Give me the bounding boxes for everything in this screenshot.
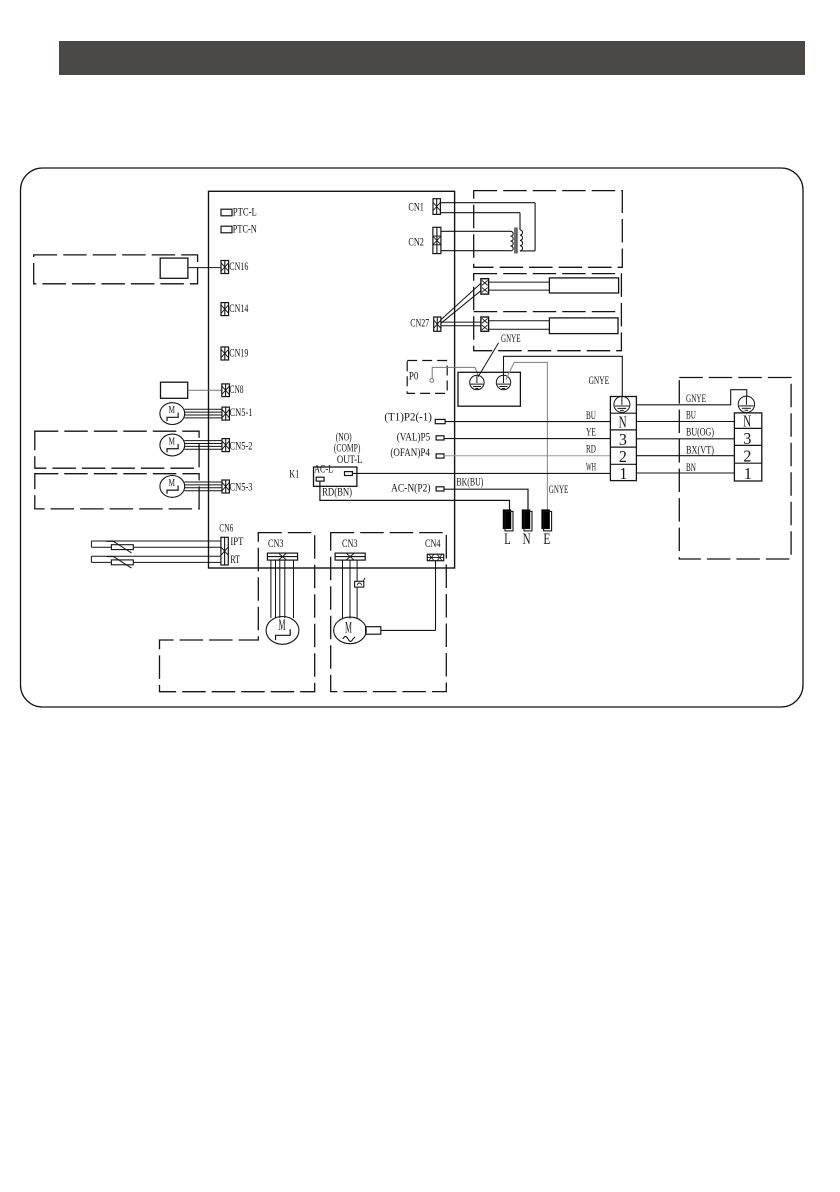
svg-text:IPT: IPT — [230, 534, 243, 548]
svg-text:RT: RT — [230, 552, 240, 566]
svg-text:K1: K1 — [289, 467, 299, 481]
svg-text:OUT-L: OUT-L — [337, 452, 363, 466]
svg-text:BK(BU): BK(BU) — [456, 474, 483, 488]
svg-text:(VAL)P5: (VAL)P5 — [397, 429, 431, 443]
svg-text:CN8: CN8 — [230, 382, 244, 396]
svg-text:M: M — [169, 477, 176, 489]
svg-text:M: M — [169, 404, 176, 416]
svg-text:GNYE: GNYE — [589, 373, 610, 387]
svg-text:CN1: CN1 — [408, 200, 424, 214]
svg-text:CN3: CN3 — [342, 536, 358, 550]
svg-text:BU(OG): BU(OG) — [686, 425, 714, 439]
svg-text:GNYE: GNYE — [501, 331, 521, 345]
svg-text:BX(VT): BX(VT) — [686, 443, 714, 457]
svg-text:3: 3 — [743, 429, 751, 448]
svg-text:M: M — [169, 436, 176, 448]
svg-text:M: M — [345, 619, 352, 636]
svg-text:YE: YE — [586, 425, 596, 439]
svg-text:AC-N(P2): AC-N(P2) — [391, 480, 431, 494]
svg-text:BU: BU — [686, 407, 696, 421]
svg-text:L: L — [504, 531, 511, 548]
svg-text:1: 1 — [619, 464, 627, 483]
svg-text:CN5-3: CN5-3 — [230, 479, 253, 493]
svg-text:3: 3 — [619, 430, 627, 449]
svg-text:P0: P0 — [409, 368, 419, 382]
svg-text:GNYE: GNYE — [549, 482, 569, 496]
svg-text:CN4: CN4 — [425, 536, 441, 550]
svg-text:RD(BN): RD(BN) — [322, 485, 352, 499]
svg-text:BN: BN — [686, 460, 696, 474]
svg-text:CN2: CN2 — [408, 235, 424, 249]
svg-text:WH: WH — [586, 459, 596, 473]
svg-text:N: N — [619, 413, 627, 432]
svg-text:RD: RD — [586, 442, 596, 456]
svg-text:CN16: CN16 — [229, 259, 248, 273]
svg-text:CN19: CN19 — [229, 345, 248, 359]
svg-text:AC-L: AC-L — [314, 462, 333, 476]
svg-text:(OFAN)P4: (OFAN)P4 — [390, 445, 430, 459]
svg-text:CN5-1: CN5-1 — [230, 405, 253, 419]
svg-text:(T1)P2(-1): (T1)P2(-1) — [384, 410, 432, 424]
svg-text:E: E — [543, 531, 550, 548]
svg-text:CN3: CN3 — [268, 536, 284, 550]
svg-text:CN6: CN6 — [219, 521, 233, 535]
svg-text:2: 2 — [743, 446, 751, 465]
svg-text:CN5-2: CN5-2 — [230, 439, 253, 453]
svg-text:GNYE: GNYE — [686, 391, 706, 405]
svg-text:CN27: CN27 — [410, 316, 429, 330]
svg-text:CN14: CN14 — [229, 301, 248, 315]
svg-text:N: N — [743, 412, 751, 431]
svg-text:PTC-N: PTC-N — [233, 222, 257, 236]
svg-text:N: N — [523, 531, 531, 548]
svg-text:PTC-L: PTC-L — [233, 205, 257, 219]
svg-text:BU: BU — [586, 408, 596, 422]
svg-text:1: 1 — [744, 464, 752, 483]
svg-text:M: M — [279, 617, 286, 634]
